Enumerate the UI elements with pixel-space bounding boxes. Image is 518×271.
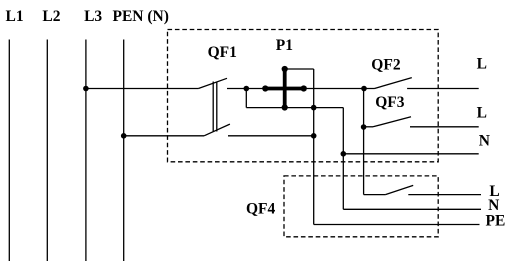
svg-text:L2: L2	[42, 8, 60, 25]
node junction QF3 tee	[361, 124, 367, 130]
svg-text:N: N	[488, 197, 499, 214]
node junction L3 / main line	[83, 86, 89, 92]
wire N upper output run	[343, 153, 478, 155]
svg-text:PE: PE	[486, 213, 506, 230]
breaker QF1 linkage bar a	[212, 82, 214, 132]
svg-text:QF3: QF3	[375, 94, 405, 111]
wire QF3 stub	[364, 126, 373, 128]
svg-text:PEN (N): PEN (N)	[113, 8, 169, 25]
wire N vertical bus	[342, 108, 344, 210]
wire N lower output run	[343, 208, 481, 210]
enclosure dashed box 1	[168, 30, 439, 162]
switch QF4 blade	[385, 185, 413, 194]
wire PEN to QF1 pole2	[124, 135, 204, 137]
wire QF3 output	[410, 126, 479, 128]
svg-text:QF2: QF2	[371, 56, 401, 73]
wire QF1 pole2 output to PEN vertical	[228, 135, 314, 137]
svg-text:QF1: QF1	[208, 44, 237, 61]
wire P1 top to PEN vertical	[285, 68, 314, 70]
enclosure dashed box 2 (QF4)	[284, 176, 438, 237]
switch QF2 blade	[375, 78, 412, 89]
wire QF4 input elbow	[364, 194, 386, 196]
svg-text:QF4: QF4	[246, 201, 276, 218]
breaker QF1 pole2 blade	[204, 124, 230, 136]
wire PE output run	[314, 224, 480, 226]
node junction PEN / QF1 pole2	[121, 133, 127, 139]
bus PEN	[123, 40, 125, 262]
node junction N tee	[341, 151, 347, 157]
svg-text:L1: L1	[6, 8, 24, 25]
wire L vertical branch to QF4	[363, 89, 365, 195]
node junction PEN vertical / QF1 pole2 output	[311, 133, 317, 139]
wire QF4 L output	[408, 194, 481, 196]
switch P1 cross vertical bar	[283, 69, 287, 108]
breaker QF1 pole1 blade	[198, 78, 227, 88]
switch QF3 blade	[373, 117, 411, 127]
bus L2	[46, 40, 48, 262]
svg-text:L: L	[477, 56, 487, 73]
switch P1 cross horizontal bar	[263, 87, 307, 91]
node bypass tee on main line	[244, 86, 250, 92]
node junction QF2 tee	[361, 86, 367, 92]
wire bypass bottom run to N vertical	[246, 107, 343, 109]
svg-text:N: N	[479, 133, 490, 150]
wire QF2 output	[407, 88, 479, 90]
wire QF1 pole1 output to QF2 junction	[227, 88, 375, 90]
bus L3	[85, 40, 87, 262]
node P1 top tip	[282, 66, 288, 72]
wire L3 to QF1 pole1	[86, 88, 198, 90]
node P1 bottom tip	[282, 104, 288, 110]
svg-text:P1: P1	[276, 37, 293, 54]
svg-text:L3: L3	[84, 8, 102, 25]
wire PEN vertical bus	[313, 69, 315, 225]
node junction PEN vertical / bypass line	[311, 105, 317, 111]
svg-text:L: L	[477, 104, 487, 121]
wire bypass vertical drop	[245, 89, 247, 108]
bus L1	[8, 40, 10, 262]
node P1 right tip	[301, 85, 307, 91]
node P1 left tip	[262, 85, 268, 91]
breaker QF1 linkage bar b	[216, 82, 218, 132]
